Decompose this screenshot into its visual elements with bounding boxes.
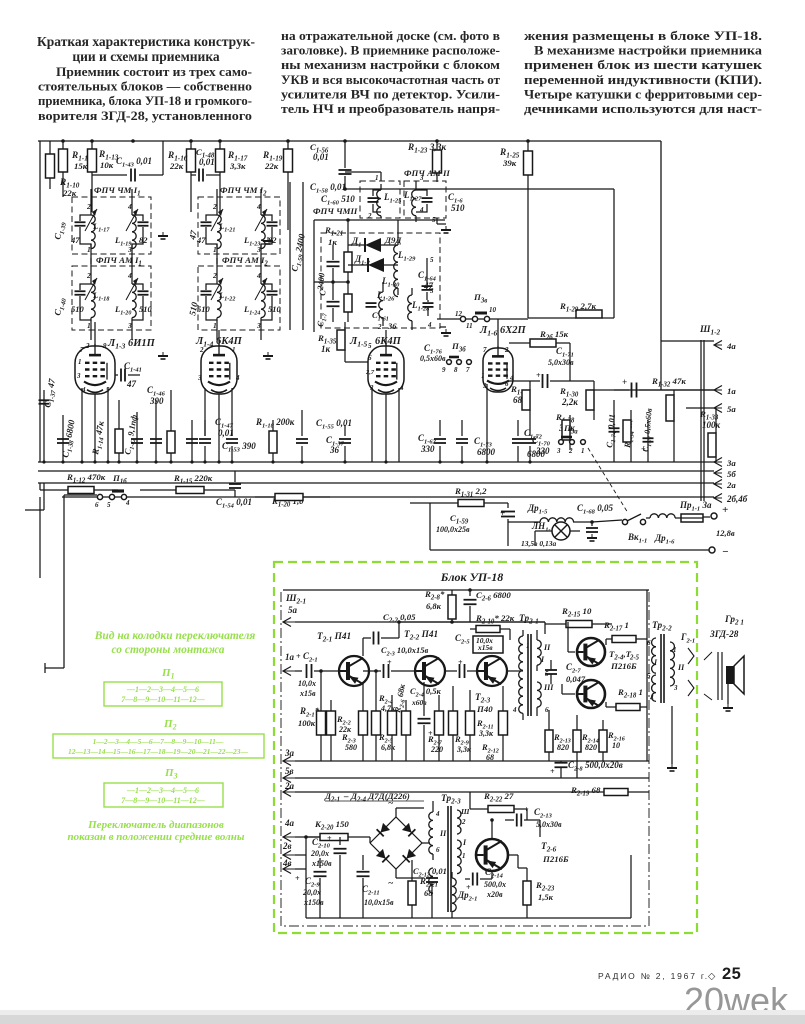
svg-text:330: 330 [420,444,435,454]
svg-text:—1—2—3—4—5—6: —1—2—3—4—5—6 [126,786,199,795]
resistor R1-19 [287,141,289,149]
svg-text:+: + [296,652,301,661]
svg-text:0,01: 0,01 [199,157,215,167]
svg-text:C1-68 0,05: C1-68 0,05 [577,503,613,516]
svg-text:II: II [439,829,447,838]
svg-text:1—2—3—4—5—6—7—8—9—10—11—: 1—2—3—4—5—6—7—8—9—10—11— [93,737,224,746]
svg-text:R2-19 68: R2-19 68 [570,785,601,798]
svg-text:применен блок из шести катушек: применен блок из шести катушек [524,57,763,72]
svg-text:2: 2 [85,342,90,350]
svg-text:11: 11 [466,322,473,330]
svg-text:47: 47 [126,379,137,389]
green switch table P2 [53,734,264,758]
svg-text:6: 6 [436,846,440,854]
resistor R2-14 [573,730,581,752]
svg-text:3: 3 [482,382,487,390]
svg-text:0,5х60в: 0,5х60в [420,354,446,363]
svg-text:3: 3 [127,321,132,330]
svg-text:3: 3 [256,245,261,254]
svg-text:приемника, блока УП-18 и громк: приемника, блока УП-18 и громкого- [38,93,252,108]
svg-text:L1-21: L1-21 [218,221,235,234]
svg-text:100,0х25в: 100,0х25в [436,525,470,534]
svg-text:П216Б: П216Б [610,661,637,671]
svg-text:Т2-6: Т2-6 [541,842,557,854]
svg-text:3: 3 [429,287,434,295]
svg-text:C2-11: C2-11 [362,884,380,897]
resistor R1-10 [49,141,51,154]
svg-text:0,047: 0,047 [566,674,586,684]
svg-text:510: 510 [268,304,282,314]
svg-text:4: 4 [649,694,654,702]
svg-text:П3: П3 [164,767,178,781]
svg-text:II: II [677,663,685,672]
svg-text:Д9Д: Д9Д [384,235,402,245]
svg-text:3,3к: 3,3к [229,161,246,171]
svg-text:В механизме настройки приемник: В механизме настройки приемника [534,43,763,58]
svg-text:I: I [540,655,545,664]
svg-text:C1-41: C1-41 [124,361,142,374]
svg-text:10к: 10к [100,160,114,170]
resistor R2-13 [545,730,553,752]
svg-text:Др1-5: Др1-5 [527,503,548,516]
svg-text:П1: П1 [161,667,175,681]
svg-text:П3в: П3в [473,292,487,305]
svg-text:2: 2 [377,323,382,331]
feedback wire right side [646,590,648,761]
svg-text:C2-8 500,0х20в: C2-8 500,0х20в [568,760,623,773]
svg-text:х150в: х150в [311,859,332,868]
svg-text:Т2-3: Т2-3 [475,693,491,705]
svg-text:C2-7: C2-7 [566,662,581,675]
svg-text:2: 2 [86,271,91,280]
svg-text:Ш2-1: Ш2-1 [285,594,306,606]
svg-text:12—13—14—15—16—17—18—19—20—21—: 12—13—14—15—16—17—18—19—20—21—22—23— [68,747,249,756]
svg-text:3: 3 [556,447,561,455]
wire vertical x614 to R1-29 [613,189,615,318]
svg-text:C1-55 0,01: C1-55 0,01 [316,418,352,431]
bus line 2a [38,482,714,484]
svg-text:C2-5: C2-5 [455,633,470,646]
svg-text:жения размещены в блоке УП-18.: жения размещены в блоке УП-18. [524,28,762,43]
svg-text:C2400: C2400 [315,272,329,296]
svg-text:1: 1 [213,245,217,254]
svg-text:II: II [543,643,551,652]
svg-text:R1-32 47к: R1-32 47к [651,376,686,389]
svg-text:C2-9: C2-9 [305,876,320,889]
resistor R1-11 [62,141,64,149]
svg-text:R1-21: R1-21 [324,225,343,238]
svg-text:2: 2 [212,202,217,211]
bus line 2b4b [62,496,714,498]
bus 4a to connector [661,340,714,342]
svg-text:3а: 3а [284,748,295,758]
svg-text:ворителя ЗГД-28, установленно: ворителя ЗГД-28, установленного [38,108,252,123]
svg-text:2: 2 [504,346,509,354]
svg-text:2,7: 2,7 [365,369,375,376]
svg-text:3а: 3а [726,458,736,468]
svg-text:+: + [295,874,300,883]
wire R1-29 to detector [576,310,602,318]
svg-text:C1-42 9,1пф: C1-42 9,1пф [122,414,141,456]
svg-text:580: 580 [345,743,357,752]
svg-text:C1-61: C1-61 [372,310,389,323]
svg-text:22к: 22к [169,161,184,171]
svg-text:Гр2 1: Гр2 1 [724,615,744,627]
svg-text:820: 820 [585,743,597,752]
svg-text:6: 6 [505,380,509,388]
detector mid rail [314,281,348,283]
svg-text:5а: 5а [288,605,298,615]
svg-text:П2: П2 [163,718,177,732]
ratio detector dashed box FPCh ChM II part 2 [321,233,440,328]
wire AVC bus y189 [345,188,614,190]
svg-text:R2-10* 22к: R2-10* 22к [475,613,515,626]
svg-text:1,5к: 1,5к [538,892,554,902]
svg-text:36: 36 [329,445,340,455]
svg-text:C1-39: C1-39 [52,220,68,241]
svg-text:2: 2 [199,346,204,354]
svg-text:L1-29: L1-29 [397,250,416,263]
svg-text:1: 1 [673,646,677,654]
svg-text:6,8к: 6,8к [381,743,396,752]
svg-text:+: + [466,883,471,892]
svg-text:1: 1 [462,852,466,860]
svg-text:7: 7 [483,346,487,354]
svg-text:4а: 4а [726,341,736,351]
svg-text:R2-15 10: R2-15 10 [561,606,592,619]
svg-text:L1-20: L1-20 [114,304,131,317]
svg-text:C2-3 10,0х15в: C2-3 10,0х15в [381,645,429,658]
svg-text:со стороны монтажа: со стороны монтажа [111,644,224,656]
svg-text:х15в: х15в [299,689,316,698]
svg-text:УКВ и вся высокочастотная част: УКВ и вся высокочастотная часть от [281,72,501,87]
svg-text:L1-17: L1-17 [92,221,110,234]
svg-text:C1-40: C1-40 [52,296,68,317]
svg-text:ны механизм настройки с блоком: ны механизм настройки с блоком [281,57,500,72]
svg-text:I: I [653,658,658,667]
svg-text:68: 68 [424,888,433,898]
svg-text:C2-6 6800: C2-6 6800 [476,590,511,603]
svg-text:х15в: х15в [477,643,493,652]
svg-text:Др1-6: Др1-6 [654,533,675,546]
svg-text:4: 4 [256,202,261,211]
svg-text:2б,4б: 2б,4б [726,494,748,504]
resistor R1-35 body [344,322,346,330]
svg-text:1: 1 [481,372,485,380]
wire left rail x40 [39,141,41,462]
svg-text:6800: 6800 [477,447,496,457]
svg-text:ЗГД-28: ЗГД-28 [709,630,739,640]
svg-text:Ш1-2: Ш1-2 [699,325,720,337]
svg-text:3,3к: 3,3к [478,729,494,738]
svg-text:0,01: 0,01 [313,152,329,162]
svg-text:2: 2 [86,202,91,211]
svg-text:10,0х15в: 10,0х15в [364,898,394,907]
svg-text:5: 5 [107,501,111,509]
svg-text:3: 3 [197,374,202,382]
ratio detector outer wire box [314,219,445,221]
svg-text:Ш: Ш [460,807,470,816]
svg-text:III: III [543,683,554,692]
svg-text:10: 10 [612,741,620,750]
svg-text:+: + [550,767,555,776]
svg-text:3: 3 [419,174,424,182]
svg-text:82: 82 [139,235,148,245]
svg-text:C1-59 2400: C1-59 2400 [289,232,309,272]
svg-text:10: 10 [489,306,497,314]
svg-text:C2-1: C2-1 [303,651,318,664]
svg-text:4а: 4а [284,818,295,828]
wire left drop to UP-18 area [63,495,65,668]
svg-text:4: 4 [427,321,432,329]
tube L1-3 pin wires [94,322,96,346]
svg-text:+: + [536,371,541,380]
svg-text:Четыре катушки с ферритовыми с: Четыре катушки с ферритовыми сер- [524,86,762,101]
node C1-58 [344,185,346,189]
svg-text:К2-20 150: К2-20 150 [314,819,349,832]
svg-text:Т2-2 П41: Т2-2 П41 [404,630,438,642]
transformer Tr2-1 secondary taps [544,622,546,634]
ground symbols row [162,232,164,236]
svg-text:1к: 1к [321,344,331,354]
svg-text:Л1-6 6Х2П: Л1-6 6Х2П [479,325,526,338]
svg-text:47: 47 [70,235,80,245]
transistor T2-5 P216B [577,680,605,708]
svg-text:R2-8*: R2-8* [424,589,445,602]
supply rail top of UP-18 [283,589,649,591]
capacitor C1-46 body [155,400,157,462]
svg-text:Тр2-1: Тр2-1 [519,614,539,626]
svg-text:П216Б: П216Б [542,854,569,864]
svg-text:ции и схемы приемника: ции и схемы приемника [72,49,220,64]
PSU bottom rail [306,917,631,919]
boxed label 10,0x15v [473,636,503,653]
svg-text:10,0х: 10,0х [298,679,316,688]
svg-text:Вид на колодки переключателя: Вид на колодки переключателя [94,630,256,642]
bus line 5b [38,470,714,472]
svg-text:L1-25: L1-25 [383,192,402,205]
svg-text:х20в: х20в [486,890,503,899]
terminal minus [709,547,715,553]
svg-text:1: 1 [581,447,585,455]
svg-text:2в: 2в [282,841,292,851]
svg-text:510: 510 [139,304,153,314]
diode bridge D2-1..D2-4 [363,836,370,838]
svg-text:Т2-4,Т: Т2-4,Т [609,649,632,662]
svg-text:3: 3 [76,372,81,380]
svg-text:2: 2 [367,212,372,220]
svg-text:C1-60 510: C1-60 510 [321,194,355,207]
svg-text:+: + [722,504,728,516]
svg-text:6: 6 [95,501,99,509]
bus 1a [594,389,714,391]
resistor R1-16 [190,141,192,149]
wire right vertical from top bus [660,141,662,341]
svg-text:L1-30: L1-30 [381,276,400,289]
page bottom scan shadow [0,1015,805,1024]
svg-text:R1-18 200к: R1-18 200к [255,417,295,430]
svg-text:500,0х: 500,0х [484,880,506,889]
svg-text:Т2-1 П41: Т2-1 П41 [317,632,351,644]
svg-text:7—8—9—10—11—12—: 7—8—9—10—11—12— [121,796,205,805]
svg-text:−: − [722,546,729,558]
bus junction dots [42,460,45,463]
resistor R2-16 [599,730,607,752]
svg-text:C1-71: C1-71 [556,346,574,359]
svg-text:+: + [641,445,646,454]
capacitor C1-66 lower [332,282,334,300]
svg-text:4: 4 [399,384,404,392]
green highlight box of UP-18 [274,562,697,933]
svg-text:12: 12 [455,310,463,318]
green switch table P3 [104,783,223,807]
dashed pointer to Vk1-1 [588,448,628,513]
svg-text:П40: П40 [476,704,493,714]
svg-text:4: 4 [125,499,130,507]
svg-text:100к: 100к [298,718,316,728]
svg-text:2а: 2а [284,781,295,791]
svg-text:20,0х: 20,0х [310,849,329,858]
svg-text:1: 1 [526,642,530,650]
bus 5a [686,407,714,409]
transistor T2-4 P216B [577,638,605,666]
svg-text:+: + [327,834,332,843]
svg-text:заголовке). В приемнике распол: заголовке). В приемнике расположе- [281,43,500,58]
svg-text:68: 68 [486,753,494,762]
svg-text:Д2-1: Д2-1 [324,791,340,804]
svg-text:I: I [462,838,467,847]
svg-text:4: 4 [127,271,132,280]
svg-text:6: 6 [368,354,372,362]
svg-text:ФПЧ ЧМ I2: ФПЧ ЧМ I2 [220,185,267,198]
svg-text:510: 510 [71,304,85,314]
svg-text:1: 1 [375,174,379,182]
svg-text:13,5в 0,13а: 13,5в 0,13а [521,539,556,548]
svg-text:820: 820 [557,743,569,752]
svg-text:ФПЧ ЧМII: ФПЧ ЧМII [313,206,358,216]
svg-text:показан в положении средние в: показан в положении средние волны [68,831,245,843]
resistor R1-25 [527,141,529,151]
svg-text:5,0х30в: 5,0х30в [548,358,574,367]
svg-text:4: 4 [235,374,240,382]
resistor R1-22 lower [347,282,349,294]
svg-text:Вк1-1: Вк1-1 [627,532,647,545]
svg-text:L1-24: L1-24 [243,304,260,317]
svg-text:47: 47 [187,229,199,241]
bus line 3a [38,461,714,463]
svg-text:4: 4 [127,202,132,211]
svg-text:220: 220 [430,745,443,754]
svg-text:15к: 15к [74,161,88,171]
svg-text:9: 9 [103,342,107,350]
svg-text:C1-58 0,01: C1-58 0,01 [310,182,346,195]
svg-text:2: 2 [212,271,217,280]
svg-text:5: 5 [368,342,372,350]
wire top supply bus [38,140,661,142]
svg-text:Л1-5: Л1-5 [349,336,368,349]
svg-text:5а: 5а [727,404,736,414]
resistor bias extra [466,711,475,735]
svg-text:R2-23: R2-23 [535,880,555,893]
long wires from C1-59 column [289,182,291,330]
svg-text:510: 510 [451,203,465,213]
svg-text:4: 4 [512,706,517,714]
wires under tubes to bus [81,420,83,462]
svg-text:7—8—9—10—11—12—: 7—8—9—10—11—12— [121,695,205,704]
svg-text:100к: 100к [702,420,721,430]
svg-text:4: 4 [435,810,440,818]
svg-text:L1-18: L1-18 [92,290,109,303]
svg-text:4: 4 [419,206,424,214]
resistor under L1-4 [170,390,172,431]
svg-text:дечниками используются для нас: дечниками используются для наст- [524,101,762,116]
svg-text:Пр1-1 3а: Пр1-1 3а [679,500,712,513]
svg-text:2: 2 [461,818,466,826]
svg-text:тель НЧ и преобразователь напр: тель НЧ и преобразователь напря- [281,101,500,116]
svg-text:7: 7 [466,366,470,374]
svg-text:Г2-1: Г2-1 [680,632,695,645]
svg-text:12,8в: 12,8в [716,528,735,538]
green switch table P1 [104,682,222,706]
svg-text:1: 1 [87,245,91,254]
svg-text:R2-18 1: R2-18 1 [617,687,643,700]
svg-text:2а: 2а [726,480,736,490]
svg-text:C1-59: C1-59 [450,513,469,526]
svg-text:П3б: П3б [451,341,466,354]
svg-text:4: 4 [256,271,261,280]
svg-text:+: + [524,805,529,814]
svg-text:Приемник состоит из трех само-: Приемник состоит из трех само- [56,64,252,79]
svg-text:C2-12 0,01: C2-12 0,01 [413,866,447,879]
svg-text:8: 8 [454,366,458,374]
ground right of AM II [436,218,438,224]
node top bus junctions [61,139,65,143]
resistor R2-9 [449,711,458,735]
svg-text:1: 1 [232,346,236,354]
svg-text:3: 3 [256,321,261,330]
svg-text:ФПЧ ЧМ I1: ФПЧ ЧМ I1 [94,185,141,198]
UP-18 unit boundary [281,592,649,926]
svg-text:—1—2—3—4—5—6: —1—2—3—4—5—6 [126,685,199,694]
svg-text:39к: 39к [502,158,517,168]
svg-text:Блок УП-18: Блок УП-18 [440,570,504,584]
svg-text:C2-13: C2-13 [534,807,553,820]
svg-text:R1-14 47к: R1-14 47к [90,420,108,457]
svg-text:Л1-3 6И1П: Л1-3 6И1П [107,338,156,351]
ground in UP-18 [671,706,673,764]
svg-text:R2-22 27: R2-22 27 [483,791,514,804]
svg-text:9: 9 [442,366,446,374]
resistor R1-17 [219,141,221,149]
svg-text:3: 3 [673,684,678,692]
svg-text:R2-17 1: R2-17 1 [603,620,629,633]
svg-text:C1-54 0,01: C1-54 0,01 [216,497,252,510]
svg-text:36: 36 [387,321,397,331]
svg-text:переменной индуктивности (КПИ): переменной индуктивности (КПИ). [524,72,762,87]
capacitor C1-44 row [191,420,193,462]
svg-text:7: 7 [80,346,84,354]
svg-text:1: 1 [78,358,82,366]
terminal plus 12.8v [711,513,717,519]
svg-text:1: 1 [213,321,217,330]
svg-text:5: 5 [430,256,434,264]
svg-text:R1-23 3,3к: R1-23 3,3к [407,143,446,155]
svg-text:20,0х: 20,0х [302,888,321,897]
svg-text:330: 330 [535,446,550,456]
resistor R1-13 [91,141,93,149]
svg-text:L1-22: L1-22 [218,290,235,303]
svg-text:Краткая характеристика констру: Краткая характеристика конструк- [37,34,255,49]
